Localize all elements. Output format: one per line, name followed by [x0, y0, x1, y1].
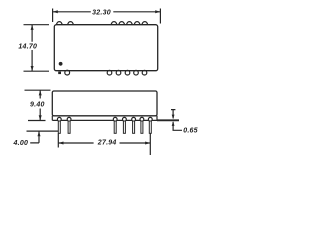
- side view pin leads: [58, 121, 151, 133]
- dim 14.70 extension lines: [24, 25, 50, 71]
- top edge pin bumps right group (pins 8-12): [111, 22, 147, 25]
- svg-text:27.94: 27.94: [97, 140, 117, 147]
- svg-text:0.65: 0.65: [183, 128, 198, 135]
- dim 32.30 extension lines: [53, 9, 161, 24]
- svg-text:14.70: 14.70: [18, 43, 37, 50]
- dim 4.00 leader with up arrow: [30, 131, 39, 143]
- top edge pin bumps left group (pins 1-2): [57, 22, 74, 25]
- top view body outline: [54, 25, 157, 71]
- dim 9.40 dimension line: [39, 90, 41, 120]
- dim 9.40 arrows: [39, 90, 42, 120]
- dim 32.30 arrows: [53, 10, 161, 13]
- svg-text:9.40: 9.40: [30, 102, 45, 109]
- dim 0.65 upper arrow and tick: [171, 110, 175, 119]
- dim 9.40 extension lines: [25, 90, 51, 120]
- side view body outline: [52, 91, 157, 116]
- dim 4.00 pin tip extension line: [27, 130, 59, 132]
- dim 0.65 seating extension line: [157, 119, 179, 121]
- dim 0.65 leader with up arrow: [173, 122, 182, 130]
- dim 27.94 dimension line: [58, 142, 150, 144]
- pin 1 index dot: [59, 62, 63, 66]
- dim 27.94 arrows: [58, 142, 150, 145]
- dim 27.94 extension lines: [58, 134, 150, 156]
- dim 14.70 dimension line: [31, 25, 33, 71]
- side view seating plate line: [52, 119, 157, 121]
- dim 32.30 dimension line: [53, 11, 161, 13]
- seating plate side edges: [52, 116, 157, 121]
- bottom edge pin 2 bump: [65, 70, 70, 75]
- bottom edge pin 1 mark (filled): [58, 72, 61, 75]
- svg-text:32.30: 32.30: [92, 10, 111, 17]
- svg-text:4.00: 4.00: [12, 140, 28, 147]
- dim 14.70 arrows: [31, 25, 34, 71]
- bottom edge pin bumps right group: [107, 70, 112, 75]
- side view pin shoulders: [57, 117, 152, 121]
